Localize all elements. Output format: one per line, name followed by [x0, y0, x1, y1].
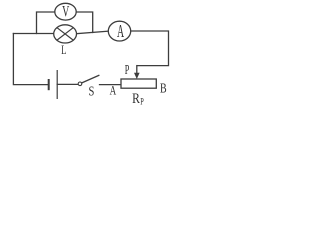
svg-text:R: R [132, 90, 140, 107]
svg-text:V: V [62, 2, 69, 20]
svg-text:L: L [61, 43, 66, 57]
svg-text:A: A [110, 84, 117, 98]
svg-text:P: P [125, 63, 130, 78]
svg-text:B: B [160, 80, 167, 96]
svg-text:S: S [88, 83, 94, 99]
svg-text:P: P [140, 96, 144, 107]
svg-text:A: A [117, 22, 125, 42]
